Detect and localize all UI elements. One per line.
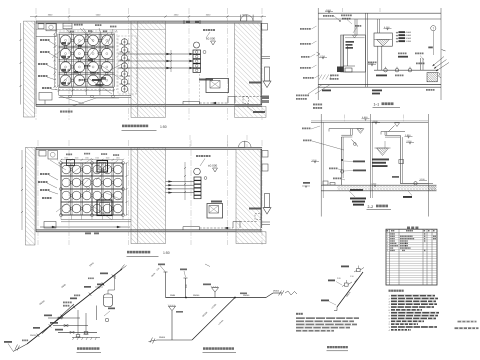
svg-text:3.60: 3.60 bbox=[186, 285, 188, 289]
fixtures left room B bbox=[39, 151, 46, 157]
elevation list 1-1 bbox=[396, 32, 398, 33]
ground lines 1-1 bbox=[318, 84, 441, 86]
drain pipe bottom B bbox=[200, 227, 234, 229]
svg-text:3: 3 bbox=[389, 327, 390, 329]
wall right hatched A bbox=[235, 23, 261, 105]
section boundaries 1-1 bbox=[317, 8, 319, 100]
right bay 2-2 bbox=[381, 131, 405, 133]
bottom pipe B bbox=[40, 226, 130, 228]
riser 1 iso2 bbox=[165, 272, 167, 298]
svg-text:1.10: 1.10 bbox=[350, 276, 354, 278]
sump pit B bbox=[207, 204, 223, 219]
exit arrow A bbox=[265, 67, 270, 81]
drop pipes 1-1 bbox=[354, 19, 356, 35]
risers iso1 bbox=[77, 310, 79, 335]
plan A: pump room plan (upper) bbox=[20, 8, 272, 120]
bubble 1-1 bbox=[431, 26, 436, 31]
small note text bbox=[313, 104, 315, 106]
leader clutter grid B bbox=[70, 158, 92, 175]
svg-text:DN100: DN100 bbox=[243, 295, 250, 297]
svg-text:4.600: 4.600 bbox=[373, 121, 379, 123]
section 2-2 bbox=[302, 114, 437, 217]
labels left room A bbox=[40, 39, 42, 41]
isometric riser diagram 1 bbox=[4, 262, 127, 352]
diagonal iso2 bbox=[192, 298, 235, 341]
main pipe 1-1 bbox=[374, 69, 438, 71]
svg-text:2.350: 2.350 bbox=[407, 141, 413, 143]
svg-text:1.100: 1.100 bbox=[420, 179, 426, 181]
svg-text:1:50: 1:50 bbox=[160, 125, 167, 129]
svg-text:1500: 1500 bbox=[64, 157, 68, 159]
junction dots iso2 bbox=[185, 297, 187, 299]
svg-text:4: 4 bbox=[389, 304, 390, 306]
filter tank grid B bbox=[59, 163, 61, 215]
right edge fittings B bbox=[262, 151, 268, 158]
wall hatch below B right bbox=[236, 232, 266, 244]
wall top B bbox=[36, 147, 262, 149]
svg-text:2: 2 bbox=[389, 298, 390, 300]
pipes through shaft A bbox=[118, 53, 193, 55]
svg-text:4.600: 4.600 bbox=[362, 117, 368, 119]
svg-text:1:50: 1:50 bbox=[163, 251, 170, 255]
brace left bay 2-2 bbox=[352, 140, 359, 147]
installation notes block bbox=[389, 290, 391, 292]
svg-text:5: 5 bbox=[389, 307, 390, 309]
svg-text:1500: 1500 bbox=[95, 157, 99, 159]
section boundaries 2-2 bbox=[320, 114, 322, 217]
svg-text:4.000: 4.000 bbox=[406, 35, 412, 37]
svg-text:2–2: 2–2 bbox=[368, 205, 374, 209]
filter tank grid A bbox=[57, 34, 59, 87]
material table bbox=[386, 227, 437, 286]
top brace 2-2 right bbox=[389, 126, 395, 132]
main horizontal iso2 bbox=[166, 297, 267, 299]
svg-text:1: 1 bbox=[389, 321, 390, 323]
svg-text:4: 4 bbox=[389, 330, 390, 332]
wall left hatched B bbox=[26, 147, 36, 245]
grid centerlines plan A bbox=[35, 8, 37, 120]
svg-text:2.850: 2.850 bbox=[405, 135, 411, 137]
svg-text:9: 9 bbox=[389, 318, 390, 320]
svg-text:DN80: DN80 bbox=[170, 295, 176, 297]
wall right hatched B bbox=[236, 149, 261, 232]
wall hatch below A right bbox=[235, 107, 267, 118]
plan B: underground pump room plan (lower) bbox=[21, 135, 271, 245]
svg-text:8: 8 bbox=[389, 316, 390, 318]
pump stack right room B bbox=[194, 168, 201, 175]
crosshatched pit 1-1 bbox=[427, 73, 437, 82]
floor-left details 2-2 bbox=[323, 181, 328, 185]
svg-text:2: 2 bbox=[389, 324, 390, 326]
labels right of pipe 2-2 left bay bbox=[353, 161, 365, 163]
flags 1-1 bbox=[325, 11, 333, 13]
wall bottom A bbox=[36, 104, 262, 106]
suction pipes B bbox=[166, 181, 195, 183]
svg-text:1500: 1500 bbox=[75, 157, 79, 159]
earth riser iso2 bbox=[171, 311, 173, 340]
tank iso1 bbox=[104, 294, 113, 307]
svg-text:DN150: DN150 bbox=[30, 335, 37, 337]
title iso1 bbox=[77, 347, 80, 350]
svg-text:1–1: 1–1 bbox=[374, 103, 380, 107]
svg-text:1500: 1500 bbox=[85, 157, 89, 159]
wall bottom B bbox=[36, 230, 262, 232]
svg-text:1.150: 1.150 bbox=[320, 56, 326, 58]
svg-text:DN100: DN100 bbox=[159, 337, 165, 339]
svg-text:2.20: 2.20 bbox=[337, 278, 341, 280]
notes block small bbox=[296, 313, 298, 315]
sheet corner text bbox=[458, 321, 477, 323]
cleanout funnel iso2 bbox=[214, 292, 216, 298]
water tank left bay 1-1 bbox=[344, 35, 366, 72]
svg-text:3.500: 3.500 bbox=[406, 38, 412, 40]
svg-text:3: 3 bbox=[389, 301, 390, 303]
svg-text:6: 6 bbox=[389, 310, 390, 312]
sump pit A bbox=[206, 79, 229, 93]
svg-text:1500: 1500 bbox=[106, 157, 110, 159]
right edge fittings A bbox=[262, 24, 268, 31]
bottom pipe right bay 2-2 bbox=[400, 182, 428, 184]
ground lines 2-2 bbox=[321, 184, 436, 186]
svg-text:1: 1 bbox=[389, 296, 390, 298]
dimension line top A bbox=[30, 16, 266, 18]
opening hatches B bbox=[97, 161, 108, 173]
centerline stubs 2-2 bbox=[344, 115, 346, 123]
svg-text:1500: 1500 bbox=[116, 157, 120, 159]
centerline stubs 1-1 bbox=[342, 8, 344, 13]
fixture 2 iso3 bbox=[357, 269, 361, 272]
dimension line above grid B bbox=[61, 159, 123, 161]
fixture 1 iso3 bbox=[345, 283, 349, 286]
pump stack right room A bbox=[194, 42, 200, 48]
svg-text:±0.000: ±0.000 bbox=[206, 36, 215, 40]
svg-text:1.200: 1.200 bbox=[406, 41, 412, 43]
water tank symbol 2-2 right bbox=[377, 148, 389, 156]
svg-text:3.60: 3.60 bbox=[115, 275, 117, 279]
labels left bay 2-2 bbox=[302, 128, 304, 130]
double door A bbox=[241, 15, 247, 21]
riser chain A bbox=[118, 36, 137, 94]
section 1-1 bbox=[296, 8, 449, 100]
beam line A bbox=[36, 29, 166, 31]
below-floor note 2-2 bbox=[349, 191, 355, 197]
main diagonal iso1 bbox=[27, 269, 122, 344]
arrow fan 1-1 bbox=[433, 57, 445, 67]
exit arrow B bbox=[265, 194, 270, 208]
title iso3 bbox=[327, 346, 329, 348]
isometric riser diagram 3 bbox=[321, 266, 364, 311]
isometric riser diagram 2 bbox=[149, 264, 298, 344]
title iso2 bbox=[203, 347, 206, 350]
svg-text:DN100: DN100 bbox=[193, 295, 200, 297]
pipe fitting 2-2 right bbox=[399, 160, 404, 164]
pipes left bay 2-2 bbox=[340, 137, 342, 185]
wall top A bbox=[36, 21, 262, 23]
shaft hatched column B bbox=[131, 147, 166, 243]
leader clutter grid A bbox=[70, 31, 93, 50]
svg-text:7: 7 bbox=[389, 313, 390, 315]
pumps left bay 1-1 bbox=[337, 67, 344, 73]
svg-text:1.100: 1.100 bbox=[312, 160, 318, 162]
leader labels 1-1 bbox=[300, 28, 302, 30]
svg-text:0.300: 0.300 bbox=[372, 184, 377, 186]
svg-text:4.600: 4.600 bbox=[406, 32, 412, 34]
svg-text:DN100: DN100 bbox=[273, 290, 279, 292]
svg-text:4.600: 4.600 bbox=[326, 10, 332, 12]
flags right bay 2-2 bbox=[362, 118, 370, 120]
svg-text:±0.000: ±0.000 bbox=[208, 163, 217, 167]
branches iso1 bbox=[48, 317, 80, 319]
valves iso1 bbox=[58, 317, 60, 319]
title plan B bbox=[127, 251, 130, 254]
svg-text:4.100: 4.100 bbox=[384, 27, 390, 29]
suction header diagonal iso1 bbox=[42, 304, 74, 334]
title plan A bbox=[122, 125, 125, 128]
double door B bbox=[239, 141, 245, 147]
shaft hatched column A bbox=[131, 21, 166, 117]
riser 2 iso2 bbox=[185, 278, 187, 298]
labels iso3 bbox=[341, 266, 349, 268]
text block right bay 2-2 bbox=[372, 159, 389, 161]
bottom run iso2 bbox=[157, 339, 192, 341]
wall left hatched A bbox=[24, 21, 35, 117]
water tank right bay 1-1 bbox=[374, 33, 392, 46]
drain pipe bottom A bbox=[200, 102, 229, 104]
funnel left bay 2-2 bbox=[357, 129, 364, 134]
